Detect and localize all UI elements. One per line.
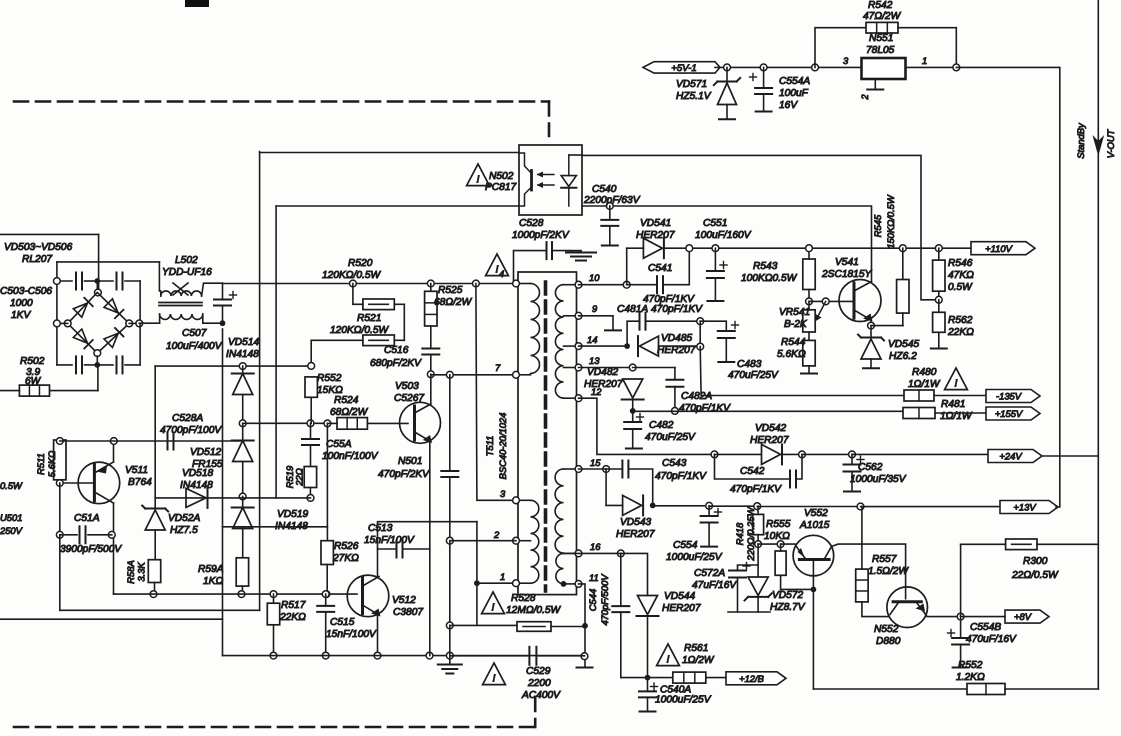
svg-text:14: 14 bbox=[587, 334, 597, 345]
pin 4 bbox=[513, 280, 520, 287]
svg-text:V512: V512 bbox=[392, 595, 416, 606]
svg-text:D880: D880 bbox=[876, 636, 901, 647]
wire C544 upper lead bbox=[620, 553, 622, 606]
scan artifact mark top bbox=[185, 0, 209, 7]
svg-text:22Ω: 22Ω bbox=[294, 468, 305, 487]
optocoupler LED bbox=[561, 155, 576, 206]
svg-text:100KΩ0.5W: 100KΩ0.5W bbox=[741, 273, 798, 284]
wire bridge cap row top left bbox=[57, 280, 72, 282]
svg-text:5.6KΩ: 5.6KΩ bbox=[777, 349, 806, 360]
node C516/V503 collector/pin7 row bbox=[427, 371, 434, 378]
wire VD572 branch bbox=[738, 544, 759, 570]
wire C528 to ground bbox=[552, 250, 570, 252]
arrow VR541 wiper bbox=[817, 301, 826, 319]
pin 12 bbox=[575, 395, 582, 402]
junction pin1 line bbox=[474, 580, 480, 586]
wire chain to VD519 bbox=[242, 497, 244, 508]
svg-text:47KΩ: 47KΩ bbox=[948, 270, 974, 281]
wire C554 top lead bbox=[708, 506, 710, 516]
svg-text:V503: V503 bbox=[395, 381, 419, 392]
wire VD545 to ground bbox=[870, 359, 872, 367]
capacitor C551 bbox=[707, 262, 727, 279]
wire pin10 row to C541 bbox=[627, 284, 657, 286]
node rail at R545 bbox=[899, 245, 906, 252]
wire C51A line down to row610 bbox=[59, 535, 61, 611]
capacitor C541 bbox=[657, 276, 663, 293]
diode VD543 bbox=[623, 495, 644, 515]
wire row y441 C528A row bbox=[60, 440, 243, 442]
wire VD544 to +12B row bbox=[647, 616, 649, 678]
resistor R545 bbox=[897, 280, 909, 314]
junction R555 at collector line bbox=[811, 587, 817, 593]
inductor L502 top winding bbox=[161, 291, 202, 296]
node V512 emitter at row655 bbox=[374, 652, 381, 659]
zener diode VD52A bbox=[142, 506, 168, 531]
wire +12B row left bbox=[621, 677, 673, 679]
wire R480 to -135V flag bbox=[934, 395, 986, 397]
node bridge top vertex bbox=[95, 289, 102, 296]
output flag +155V bbox=[986, 407, 1040, 420]
wire row B2 y619 bbox=[0, 618, 223, 620]
wire bridge top vertical bbox=[98, 234, 100, 289]
node chain at row423 bbox=[239, 420, 246, 427]
diode VD482 bbox=[622, 379, 644, 400]
capacitor C528 bbox=[547, 242, 553, 259]
svg-text:VD482: VD482 bbox=[587, 367, 618, 378]
wire L502 top-left lead bbox=[160, 291, 162, 296]
svg-text:470pF/2KV: 470pF/2KV bbox=[378, 469, 430, 480]
pin 13 bbox=[575, 364, 582, 371]
output flag +24V bbox=[988, 450, 1042, 463]
wire +13V row c bbox=[757, 506, 860, 508]
wire row y498 bbox=[155, 497, 310, 499]
svg-text:C3807: C3807 bbox=[393, 607, 423, 618]
node +24V row at C542 branch bbox=[711, 451, 718, 458]
svg-text:R58A: R58A bbox=[125, 560, 136, 583]
svg-text:VD542: VD542 bbox=[755, 423, 786, 434]
wire top vertex stub bbox=[96, 281, 98, 289]
T-bar ground C482 bbox=[626, 448, 642, 450]
wire R562 top lead bbox=[938, 300, 940, 313]
diode VD506 (bridge bottom-right) bbox=[104, 328, 123, 347]
capacitor C51A bbox=[80, 526, 86, 543]
svg-text:27KΩ: 27KΩ bbox=[332, 553, 359, 564]
resistor R552 1.2K bbox=[967, 684, 1005, 695]
svg-text:C507: C507 bbox=[182, 328, 207, 339]
wire R520/R521 right common bbox=[403, 304, 405, 340]
node diode chain top bbox=[239, 363, 246, 370]
wire V552 base to N552 bbox=[832, 544, 906, 599]
arrow V503 emitter (NPN) bbox=[423, 435, 432, 443]
node N501 line top at pin7 row bbox=[446, 371, 453, 378]
bridge rectifier VD503-VD506 outer frame left rail bbox=[56, 262, 58, 365]
wire DC bus lower segment bbox=[222, 366, 224, 655]
node R418 top bbox=[754, 503, 761, 510]
svg-text:1: 1 bbox=[500, 571, 505, 582]
T-bar ground C551 bbox=[707, 300, 723, 302]
transformer T511 box bbox=[518, 272, 577, 595]
wire +5V rail left bbox=[715, 66, 862, 68]
svg-text:2: 2 bbox=[493, 529, 500, 540]
svg-text:StandBy: StandBy bbox=[1075, 122, 1086, 159]
svg-text:R526: R526 bbox=[334, 541, 359, 552]
svg-text:N552: N552 bbox=[874, 624, 899, 635]
svg-text:VD514: VD514 bbox=[228, 337, 259, 348]
wire R526 bottom lead bbox=[326, 565, 328, 595]
wire R552 bottom lead bbox=[310, 397, 312, 423]
wire R524 to V503 base bbox=[367, 422, 408, 424]
diode VD542 bbox=[762, 444, 783, 464]
svg-text:220Ω/0.25W: 220Ω/0.25W bbox=[746, 506, 757, 561]
arrow V541 emitter (NPN) bbox=[863, 314, 873, 322]
wire +13V row a bbox=[653, 505, 709, 507]
node rail at C541 bbox=[686, 245, 693, 252]
svg-text:!: ! bbox=[492, 602, 495, 614]
resistor R542 bbox=[866, 22, 898, 33]
wire pin2 row bbox=[450, 540, 516, 542]
input flag +5V-1 bbox=[643, 62, 720, 74]
svg-text:R552: R552 bbox=[317, 373, 342, 384]
wire R562 bottom lead bbox=[938, 332, 940, 347]
junction bridge top cap row bbox=[94, 278, 100, 284]
wire +13V row d bbox=[861, 506, 1001, 508]
pin 15 bbox=[575, 466, 582, 473]
wire R481 to +155V flag bbox=[935, 412, 986, 414]
wire to pin 1 bbox=[477, 582, 515, 584]
pin 16 bbox=[575, 550, 582, 557]
svg-text:250V: 250V bbox=[0, 525, 23, 536]
zener diode VD571 bbox=[714, 78, 740, 105]
capacitor C529 bbox=[529, 647, 536, 665]
wire down to ground row bbox=[449, 625, 451, 655]
wire C507 top lead bbox=[222, 283, 224, 299]
svg-text:15nF/100V: 15nF/100V bbox=[326, 629, 377, 640]
capacitor C516 bbox=[422, 349, 439, 355]
transistor V541 2SC1815Y bbox=[839, 280, 881, 322]
wire VD52A to R58A bbox=[154, 530, 156, 560]
wire R524-left drop to R526 bbox=[326, 423, 328, 540]
resistor R557 bbox=[856, 569, 868, 602]
svg-text:VR541: VR541 bbox=[779, 307, 810, 318]
wire C481A bypass bbox=[627, 321, 638, 346]
svg-text:1KV: 1KV bbox=[11, 310, 31, 321]
svg-text:R557: R557 bbox=[872, 554, 897, 565]
wire chain to VD514 bbox=[242, 366, 244, 373]
svg-text:47Ω/2W: 47Ω/2W bbox=[863, 11, 902, 22]
svg-text:V552: V552 bbox=[804, 508, 828, 519]
warning triangle at C529 bbox=[483, 663, 506, 685]
svg-text:C529: C529 bbox=[526, 666, 551, 677]
wire R555 bottom to collector line bbox=[781, 575, 814, 589]
svg-text:C554A: C554A bbox=[779, 76, 810, 87]
svg-text:9: 9 bbox=[592, 303, 598, 314]
arrow N552 emitter (NPN) bbox=[916, 604, 926, 612]
svg-text:11: 11 bbox=[589, 572, 599, 583]
node C515 top bbox=[322, 591, 329, 598]
svg-text:120KΩ/0.5W: 120KΩ/0.5W bbox=[330, 325, 390, 336]
wire bridge cap row bottom left bbox=[57, 364, 72, 366]
zener diode VD545 bbox=[858, 335, 884, 360]
svg-text:L502: L502 bbox=[175, 255, 198, 266]
svg-text:1Ω/2W: 1Ω/2W bbox=[682, 655, 715, 666]
svg-text:3.3K: 3.3K bbox=[136, 562, 147, 582]
node R552 top / R521 feed bbox=[308, 363, 315, 370]
junction winding end pin11 bbox=[561, 581, 567, 587]
node pin10 row at C541 branch bbox=[623, 281, 630, 288]
wire pin14 row bbox=[579, 345, 628, 347]
zener diode VD572 bbox=[745, 577, 772, 601]
node C554 top bbox=[706, 502, 713, 509]
wire pin10 row bbox=[579, 284, 627, 286]
diode VD514 bbox=[232, 374, 254, 395]
resistor R546 bbox=[933, 260, 945, 291]
capacitor C544 bbox=[612, 606, 629, 612]
wire primary DC rail y283 bbox=[223, 283, 515, 285]
svg-text:HER207: HER207 bbox=[636, 230, 675, 241]
svg-text:C482: C482 bbox=[649, 420, 674, 431]
svg-text:R520: R520 bbox=[348, 258, 373, 269]
junction bridge bottom cap row bbox=[94, 362, 100, 368]
svg-text:R562: R562 bbox=[948, 315, 973, 326]
resistor R517 bbox=[267, 603, 279, 625]
wire C516 to node bbox=[430, 355, 432, 375]
node C515 bottom bbox=[322, 652, 329, 659]
svg-text:+24V: +24V bbox=[999, 451, 1022, 462]
capacitor C554A bbox=[750, 74, 773, 95]
wire C482A branch down bbox=[674, 368, 676, 379]
output flag +8V bbox=[1005, 610, 1049, 623]
wire pin12 to +24V row bbox=[579, 398, 715, 454]
wire pin16 row to VD544 bbox=[621, 553, 648, 595]
svg-text:R524: R524 bbox=[334, 395, 359, 406]
wire emitter node to R545 bottom bbox=[871, 325, 903, 327]
transistor V512 C3807 bbox=[347, 575, 389, 617]
wire C515 top lead bbox=[325, 594, 327, 606]
transformer T511 secondary winding bottom (pins 15-16-11) bbox=[555, 469, 563, 553]
capacitor C572A bbox=[729, 563, 750, 578]
svg-text:IN4148: IN4148 bbox=[180, 480, 213, 491]
svg-text:V541: V541 bbox=[835, 257, 859, 268]
junction VD543 cathode bbox=[650, 503, 656, 509]
svg-text:N501: N501 bbox=[398, 456, 422, 467]
node V541 emitter bbox=[868, 322, 875, 329]
capacitor C483 bbox=[718, 322, 739, 339]
svg-text:47uF/16V: 47uF/16V bbox=[692, 580, 737, 591]
svg-text:R542: R542 bbox=[868, 0, 893, 11]
warning triangle at R561 bbox=[657, 644, 680, 666]
warning triangle at pin4 bbox=[486, 254, 509, 276]
wire R300 row left bbox=[961, 543, 1006, 545]
wire right vertex to right rail bbox=[129, 322, 140, 324]
svg-text:R555: R555 bbox=[766, 519, 791, 530]
capacitor C542 bbox=[790, 471, 796, 488]
node R517 bottom bbox=[270, 652, 277, 659]
svg-text:C528: C528 bbox=[519, 218, 544, 229]
svg-text:R525: R525 bbox=[438, 285, 463, 296]
svg-text:+13V: +13V bbox=[1013, 502, 1036, 513]
node C540 top bbox=[606, 203, 613, 210]
wire pin7 row bbox=[431, 374, 515, 376]
wire opto top-right row to R546 column bbox=[582, 155, 939, 299]
svg-text:1.2KΩ: 1.2KΩ bbox=[956, 672, 985, 683]
node C481A right bbox=[697, 318, 704, 325]
svg-text:3: 3 bbox=[843, 55, 849, 66]
diode VD504 (bridge top-right) bbox=[104, 299, 123, 318]
wire pin15 lead bbox=[564, 468, 577, 470]
wire C554B top lead bbox=[960, 617, 962, 638]
wire R520 left drop bbox=[352, 284, 354, 305]
wire R511 line down to C51A bbox=[59, 483, 61, 535]
wire C540 bottom lead bbox=[609, 226, 611, 244]
svg-text:VD572: VD572 bbox=[772, 590, 803, 601]
svg-text:10KΩ: 10KΩ bbox=[764, 531, 790, 542]
node R418 bottom bbox=[755, 541, 762, 548]
svg-text:C482A: C482A bbox=[681, 391, 712, 402]
wire bridge right rail upper bbox=[139, 281, 141, 323]
node +8V bbox=[957, 613, 964, 620]
pin 9 bbox=[575, 312, 582, 319]
arrow V511 emitter (PNP) bbox=[98, 466, 108, 474]
wire N551 out bbox=[906, 66, 957, 68]
wire pin1 drop x477 bbox=[476, 522, 478, 626]
node R526/C515 at row594 bbox=[323, 591, 330, 598]
regulator N551 78L05 bbox=[862, 58, 906, 79]
svg-text:R544: R544 bbox=[781, 337, 806, 348]
resistor R525 bbox=[425, 291, 437, 326]
capacitor C515 bbox=[317, 606, 334, 612]
node base row left bbox=[806, 298, 813, 305]
node R542 left drop bbox=[812, 64, 819, 71]
svg-text:1: 1 bbox=[922, 55, 927, 66]
wire C562 top lead bbox=[851, 454, 853, 464]
wire pin7 lead bbox=[518, 374, 531, 376]
svg-text:1000uF/25V: 1000uF/25V bbox=[655, 695, 712, 706]
svg-text:2200pF/63V: 2200pF/63V bbox=[583, 195, 641, 206]
wire row y527 bbox=[223, 526, 328, 528]
wire rail to pin 3 bbox=[476, 284, 515, 501]
wire to V552 emitter bbox=[781, 543, 795, 545]
dashed isolation border top bbox=[14, 100, 549, 103]
wire C551 top lead bbox=[714, 248, 716, 271]
wire C528 row bbox=[514, 251, 546, 281]
wire row y594 V512 base row bbox=[114, 593, 358, 595]
node C562 top bbox=[849, 451, 856, 458]
T-bar ground C572A/VD572 bbox=[728, 611, 770, 613]
svg-text:C554B: C554B bbox=[970, 622, 1001, 633]
wire bottom vertex stub bbox=[96, 356, 98, 365]
svg-text:7: 7 bbox=[495, 362, 501, 373]
svg-text:470pF/1KV: 470pF/1KV bbox=[651, 304, 703, 315]
wire chain node to VD512 bbox=[242, 423, 244, 440]
wire V541 emitter to node bbox=[870, 320, 872, 326]
transformer T511 secondary winding top (pins 10-9-14-13-12) bbox=[555, 285, 563, 398]
transformer T511 primary winding top (pins 4-7) bbox=[531, 284, 540, 374]
wire R58A bottom lead bbox=[154, 583, 156, 595]
node bridge bottom vertex bbox=[94, 350, 101, 357]
wire R517 bottom lead bbox=[273, 625, 275, 656]
wire VD482 bottom lead bbox=[632, 400, 634, 411]
node N551 pin1 bbox=[953, 64, 960, 71]
wire lower row right bbox=[1005, 688, 1098, 690]
wire left vertex to left rail bbox=[57, 322, 68, 324]
svg-text:C503-C506: C503-C506 bbox=[0, 286, 52, 297]
wire V552 collector down bbox=[812, 576, 814, 689]
wire V511 emitter up bbox=[113, 441, 115, 462]
wire R517 top lead bbox=[273, 594, 275, 603]
junction VD482 bottom bbox=[630, 408, 636, 414]
node C51A left bbox=[56, 531, 63, 538]
wire C543 left lead bbox=[606, 468, 621, 470]
wire row y423 bbox=[243, 422, 328, 424]
wire to VD542 bbox=[715, 453, 762, 455]
svg-text:470uF/25V: 470uF/25V bbox=[728, 370, 779, 381]
node +24V at C542 right bbox=[799, 451, 806, 458]
wire R300 to +8V node bbox=[960, 544, 962, 616]
svg-text:+8V: +8V bbox=[1014, 611, 1032, 622]
wire C540 top lead bbox=[609, 206, 611, 220]
svg-text:R517: R517 bbox=[281, 600, 306, 611]
wire C482A bottom lead bbox=[674, 387, 676, 411]
svg-text:B-2K: B-2K bbox=[784, 319, 808, 330]
wire to VD545 bbox=[870, 326, 872, 336]
node rail at R520 drop bbox=[350, 280, 357, 287]
svg-text:!: ! bbox=[955, 378, 958, 390]
transformer T511 core dashed line bbox=[544, 282, 548, 591]
wire VD541 branch up bbox=[626, 248, 628, 285]
wire bridge bottom to R502 row bbox=[97, 365, 99, 391]
svg-text:470pF/1KV: 470pF/1KV bbox=[655, 471, 707, 482]
output flag +12/B bbox=[726, 672, 786, 685]
wire R543 top lead bbox=[808, 248, 810, 259]
svg-text:C481A: C481A bbox=[617, 304, 648, 315]
node C482A bottom bbox=[672, 408, 679, 415]
svg-text:470pF/1KV: 470pF/1KV bbox=[679, 403, 731, 414]
svg-text:6W: 6W bbox=[25, 376, 42, 387]
svg-text:R528: R528 bbox=[511, 593, 536, 604]
svg-text:C540: C540 bbox=[592, 184, 617, 195]
svg-text:1000pF/2KV: 1000pF/2KV bbox=[512, 230, 570, 241]
svg-text:100uF/400V: 100uF/400V bbox=[166, 341, 223, 352]
wire node down to VD485 out bbox=[699, 321, 701, 346]
wire R418 node to R555 bbox=[758, 543, 781, 545]
wire R519 bottom lead bbox=[309, 488, 311, 498]
svg-text:R502: R502 bbox=[20, 356, 45, 367]
svg-text:VD485: VD485 bbox=[661, 333, 692, 344]
resistor R481 bbox=[903, 408, 935, 419]
svg-text:C562: C562 bbox=[858, 462, 883, 473]
resistor R300 bbox=[1006, 539, 1037, 550]
node V511 emitter at row441 bbox=[110, 438, 117, 445]
wire R528 row left bbox=[450, 624, 517, 626]
svg-text:HZ5.1V: HZ5.1V bbox=[676, 91, 712, 102]
wire C554 bottom lead bbox=[708, 523, 710, 546]
wire R525 to C516 bbox=[430, 326, 432, 349]
capacitor C503 (bridge cap top-left) bbox=[76, 273, 82, 290]
junction C507 line at L502 row bbox=[220, 320, 226, 326]
svg-text:1000uF/25V: 1000uF/25V bbox=[666, 552, 723, 563]
wire N501 line to pin2 row bbox=[449, 477, 451, 541]
wire V512 emitter down bbox=[377, 615, 379, 656]
capacitor N501 470pF/2KV bbox=[441, 471, 458, 477]
diode VD544 bbox=[637, 596, 659, 617]
svg-text:C528A: C528A bbox=[172, 413, 203, 424]
svg-text:C542: C542 bbox=[740, 466, 765, 477]
wire R557 top lead bbox=[861, 507, 863, 570]
T-bar ground VD571 bbox=[719, 118, 735, 120]
wire C482 top lead bbox=[632, 411, 634, 422]
inductor L502 X mark bbox=[173, 283, 188, 295]
wire pin2 tap lead bbox=[518, 540, 531, 542]
